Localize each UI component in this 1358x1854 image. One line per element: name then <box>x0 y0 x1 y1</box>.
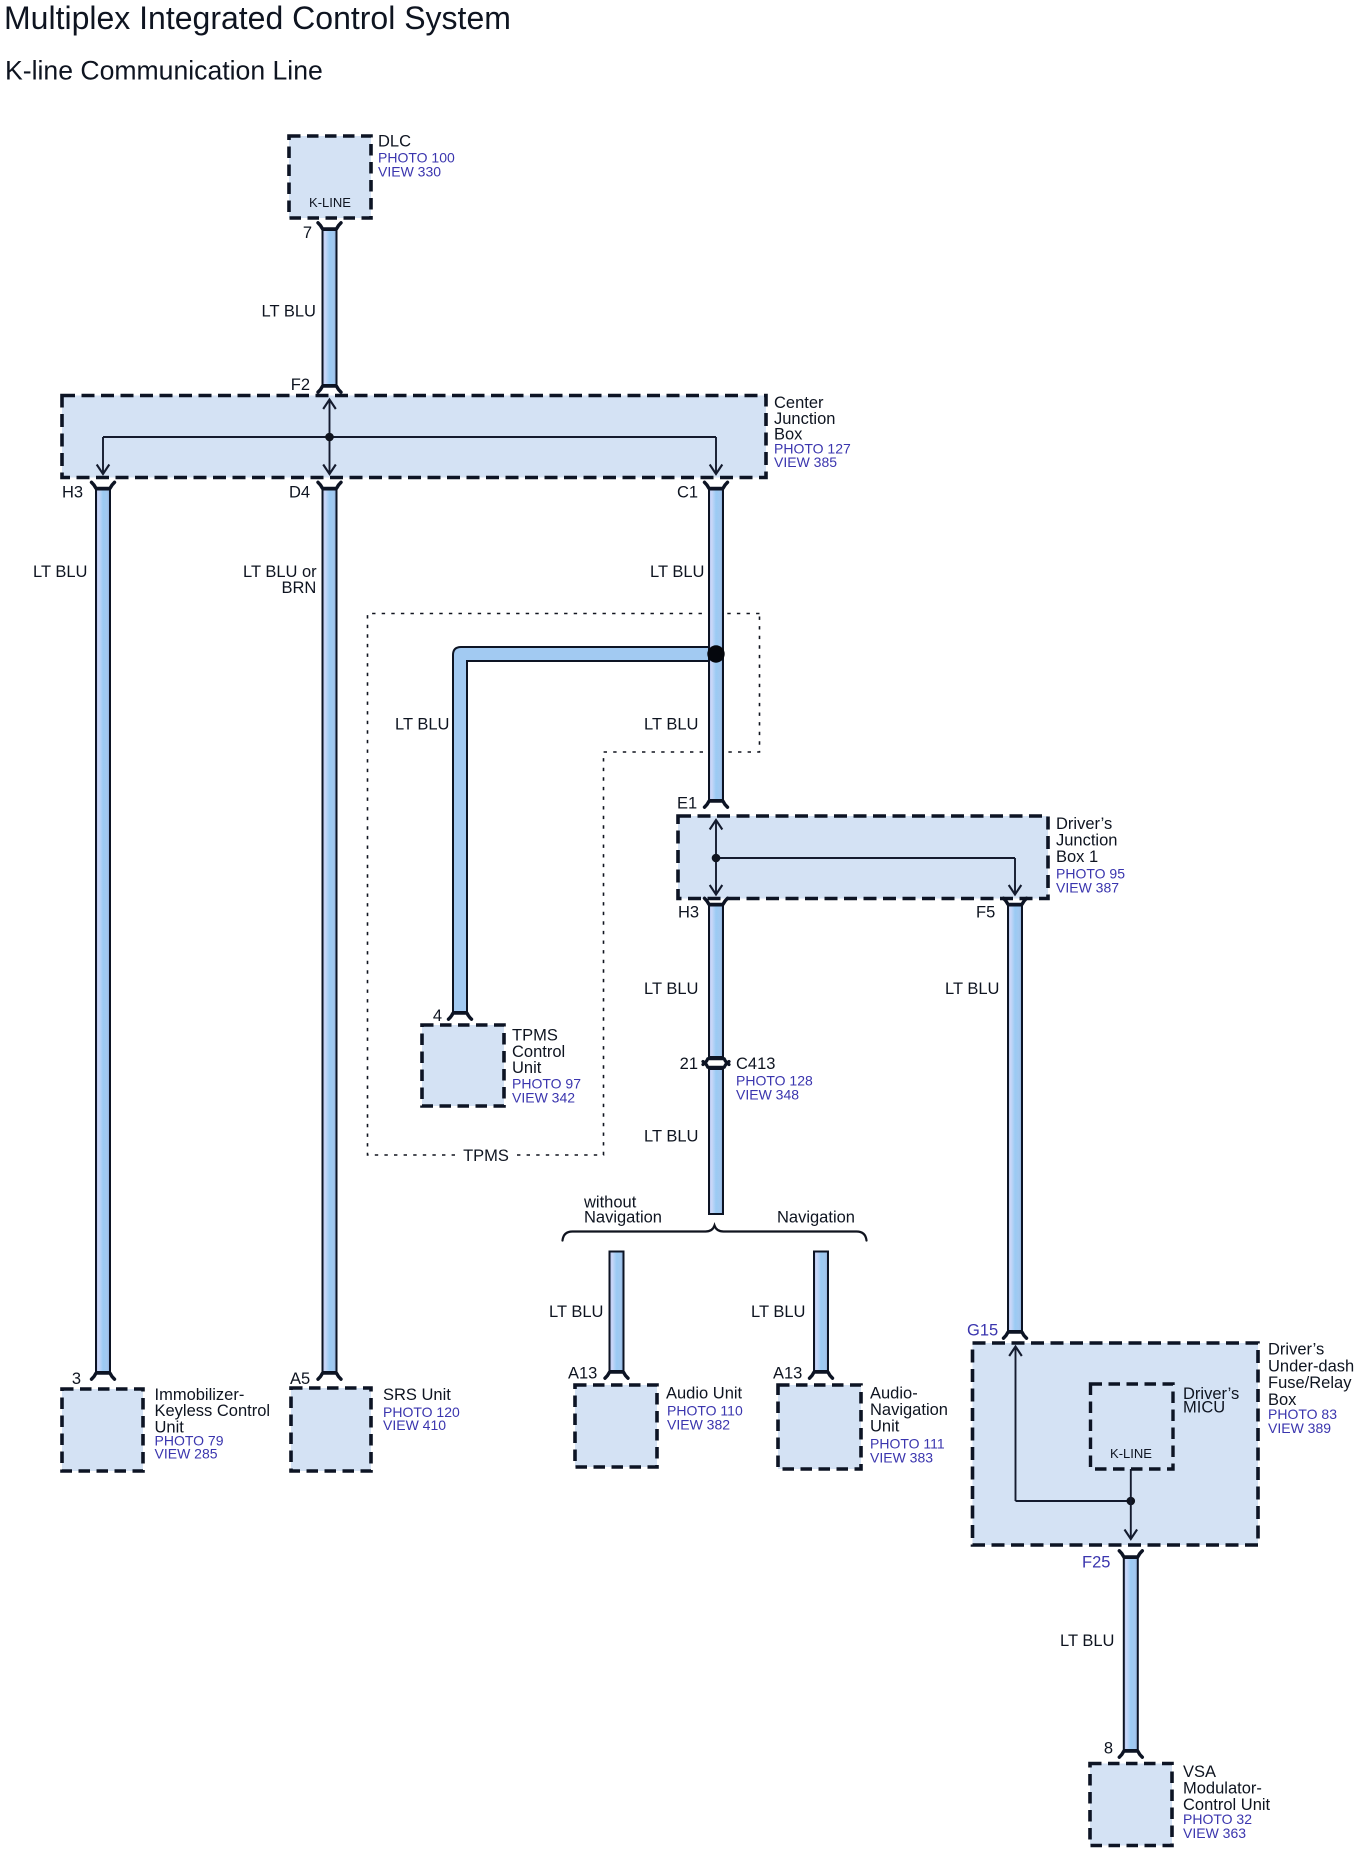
svg-text:Fuse/Relay: Fuse/Relay <box>1268 1374 1352 1392</box>
svg-text:VIEW 383: VIEW 383 <box>870 1450 933 1466</box>
component Audio Unit (box) <box>575 1385 657 1467</box>
svg-text:Navigation: Navigation <box>584 1209 662 1227</box>
svg-text:Unit: Unit <box>870 1418 900 1436</box>
wire W9: Navigation branch to Audio-Navigation Unit A13, LT BLU <box>814 1252 828 1372</box>
svg-text:LT BLU: LT BLU <box>644 1128 698 1146</box>
svg-text:LT BLU: LT BLU <box>33 563 87 581</box>
svg-text:Under-dash: Under-dash <box>1268 1357 1354 1375</box>
fuse box internal: MICU K-LINE to F25 with down arrow <box>1125 1469 1138 1539</box>
svg-text:E1: E1 <box>677 795 697 813</box>
CJB internal branch to C1 <box>710 437 723 474</box>
fuse box internal node (dot) <box>1127 1497 1136 1506</box>
svg-text:DLC: DLC <box>378 133 411 151</box>
svg-text:Audio-: Audio- <box>870 1385 918 1403</box>
svg-text:Multiplex Integrated Control S: Multiplex Integrated Control System <box>4 0 511 36</box>
DJB1 internal horizontal line <box>716 857 1015 859</box>
svg-text:TPMS: TPMS <box>463 1147 509 1165</box>
svg-text:LT BLU: LT BLU <box>1060 1632 1114 1650</box>
pin D4 (CJB) <box>318 482 341 488</box>
wire W10: DJB1 F5 to fuse box G15, LT BLU <box>1008 906 1022 1332</box>
svg-text:VSA: VSA <box>1183 1763 1216 1781</box>
svg-text:3: 3 <box>72 1370 81 1388</box>
CJB internal bus: horizontal line <box>103 436 716 438</box>
svg-text:F5: F5 <box>976 904 995 922</box>
svg-text:Navigation: Navigation <box>777 1209 855 1227</box>
svg-text:TPMS: TPMS <box>512 1027 558 1045</box>
svg-text:4: 4 <box>433 1007 442 1025</box>
wire W6: DJB1 H3 to connector C413, LT BLU <box>709 906 723 1058</box>
svg-text:Driver’s: Driver’s <box>1056 815 1112 833</box>
svg-text:Unit: Unit <box>512 1059 542 1077</box>
svg-text:A13: A13 <box>568 1365 597 1383</box>
pin E1 (DJB1) <box>705 801 728 807</box>
svg-text:Junction: Junction <box>1056 832 1117 850</box>
wire W4: CJB C1 to DJB1 E1, LT BLU <box>709 490 723 801</box>
svg-text:LT BLU: LT BLU <box>644 980 698 998</box>
svg-text:Box 1: Box 1 <box>1056 848 1098 866</box>
svg-text:H3: H3 <box>62 484 83 502</box>
connector C413 upper pin <box>703 1059 729 1065</box>
svg-text:VIEW 410: VIEW 410 <box>383 1417 446 1433</box>
svg-text:LT BLU: LT BLU <box>262 303 316 321</box>
wire W3: CJB D4 to SRS A5, LT BLU or BRN <box>323 490 337 1373</box>
svg-text:LT BLU: LT BLU <box>751 1303 805 1321</box>
svg-text:VIEW 382: VIEW 382 <box>667 1417 730 1433</box>
pin A13 (Audio Unit) <box>605 1372 628 1378</box>
pin G15 (fuse box) <box>1004 1332 1027 1338</box>
svg-text:Modulator-: Modulator- <box>1183 1780 1262 1798</box>
svg-text:MICU: MICU <box>1183 1399 1225 1417</box>
wire W2: CJB H3 to Immobilizer pin 3, LT BLU <box>96 490 110 1373</box>
component Audio-Navigation Unit (box) <box>778 1385 861 1469</box>
DJB1 internal bus: vertical line with arrows <box>710 820 723 895</box>
DJB1 internal node (dot) <box>712 854 721 863</box>
pin H3 (DJB1) <box>705 898 728 904</box>
pin 8 (VSA) <box>1119 1751 1142 1757</box>
svg-text:LT BLU: LT BLU <box>945 980 999 998</box>
component Driver's MICU (box) <box>1091 1384 1174 1469</box>
pin 4 (TPMS control unit) <box>449 1013 472 1019</box>
wire W1: DLC pin 7 to CJB F2, LT BLU <box>323 230 337 385</box>
pin F2 (CJB) <box>318 386 341 392</box>
svg-text:VIEW 385: VIEW 385 <box>774 454 837 470</box>
component Immobilizer-Keyless Control Unit (box) <box>62 1389 143 1471</box>
svg-text:VIEW 363: VIEW 363 <box>1183 1825 1246 1841</box>
pin F25 (fuse box) <box>1119 1551 1142 1557</box>
pin C1 (CJB) <box>705 482 728 488</box>
wire W11: fuse box F25 to VSA pin 8, LT BLU <box>1124 1558 1138 1750</box>
svg-text:21: 21 <box>680 1055 698 1073</box>
svg-text:VIEW 330: VIEW 330 <box>378 164 441 180</box>
svg-text:G15: G15 <box>967 1322 998 1340</box>
junction node: C1/TPMS wire splice (dot) <box>707 645 724 662</box>
DJB1 internal branch to F5 <box>1009 858 1022 895</box>
svg-text:Navigation: Navigation <box>870 1401 948 1419</box>
pin 7 (DLC) <box>318 223 341 229</box>
connector C413 lower pin <box>703 1062 729 1068</box>
pin H3 (CJB) <box>92 482 115 488</box>
svg-text:8: 8 <box>1104 1740 1113 1758</box>
svg-text:F2: F2 <box>291 376 310 394</box>
svg-text:F25: F25 <box>1082 1554 1110 1572</box>
fuse box internal horizontal line <box>1016 1500 1131 1502</box>
svg-text:H3: H3 <box>678 904 699 922</box>
CJB internal node (dot) <box>325 433 334 442</box>
svg-text:C413: C413 <box>736 1055 775 1073</box>
wire W5: TPMS branch (L-shape) to TPMS control unit pin 4 <box>453 647 712 1012</box>
svg-text:LT BLU: LT BLU <box>644 716 698 734</box>
TPMS dashed boundary <box>368 614 760 1156</box>
pin F5 (DJB1) <box>1004 898 1027 904</box>
svg-text:VIEW 389: VIEW 389 <box>1268 1420 1331 1436</box>
svg-text:VIEW 348: VIEW 348 <box>736 1087 799 1103</box>
svg-text:K-line Communication Line: K-line Communication Line <box>5 56 323 86</box>
wire W7: C413 to navigation split, LT BLU <box>709 1069 723 1214</box>
junction box: Center Junction Box <box>62 396 766 478</box>
svg-text:D4: D4 <box>289 484 310 502</box>
svg-text:LT BLU: LT BLU <box>650 563 704 581</box>
connector DLC (box) <box>289 136 371 218</box>
pin 3 (Immobilizer-Keyless Control Unit) <box>92 1373 115 1379</box>
svg-text:A13: A13 <box>773 1365 802 1383</box>
svg-text:VIEW 285: VIEW 285 <box>155 1446 218 1462</box>
svg-text:Driver’s: Driver’s <box>1268 1341 1324 1359</box>
svg-text:K-LINE: K-LINE <box>1110 1446 1152 1461</box>
component TPMS Control Unit (box) <box>422 1025 504 1106</box>
wire W8: without-Navigation branch to Audio Unit A13, LT BLU <box>610 1252 624 1372</box>
svg-text:A5: A5 <box>290 1370 310 1388</box>
svg-text:K-LINE: K-LINE <box>309 195 351 210</box>
pin A13 (Audio-Navigation Unit) <box>810 1372 833 1378</box>
svg-text:BRN: BRN <box>282 579 317 597</box>
svg-text:Audio Unit: Audio Unit <box>666 1385 743 1403</box>
fuse box internal: G15 riser with up arrow <box>1009 1347 1022 1502</box>
component VSA Modulator-Control Unit (box) <box>1090 1764 1172 1846</box>
svg-text:LT BLU: LT BLU <box>549 1303 603 1321</box>
component Driver's Under-dash Fuse/Relay Box <box>973 1343 1259 1545</box>
svg-text:Keyless Control: Keyless Control <box>155 1402 271 1420</box>
svg-text:VIEW 387: VIEW 387 <box>1056 880 1119 896</box>
pin A5 (SRS Unit) <box>318 1373 341 1379</box>
svg-text:LT BLU: LT BLU <box>395 716 449 734</box>
svg-text:7: 7 <box>303 224 312 242</box>
CJB internal branch to H3 <box>97 437 110 474</box>
component SRS Unit (box) <box>291 1388 371 1471</box>
svg-text:VIEW 342: VIEW 342 <box>512 1090 575 1106</box>
svg-text:SRS Unit: SRS Unit <box>383 1386 451 1404</box>
CJB internal bus: vertical F2-D4 line with arrows <box>323 400 336 475</box>
junction box: Driver's Junction Box 1 <box>678 816 1048 899</box>
svg-text:C1: C1 <box>677 484 698 502</box>
alternative split bracket <box>563 1226 867 1241</box>
